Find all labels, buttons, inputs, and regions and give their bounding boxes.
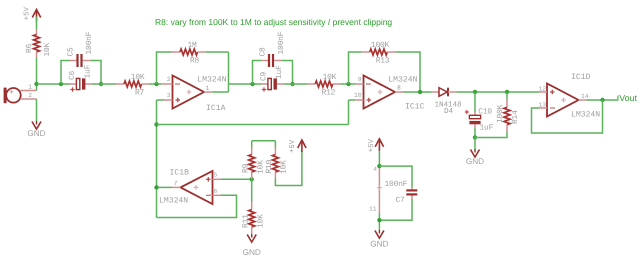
node IC1B output xyxy=(154,185,158,189)
op-amp IC1D xyxy=(547,84,579,117)
svg-text:10K: 10K xyxy=(131,73,145,82)
resistor R6 xyxy=(36,29,38,35)
pin 8 output xyxy=(395,91,403,93)
svg-text:D4: D4 xyxy=(444,107,454,116)
svg-text:2: 2 xyxy=(28,92,32,99)
wire R10 to +5V xyxy=(275,151,302,186)
node vref distribution xyxy=(154,122,158,126)
ground xyxy=(247,235,256,243)
svg-text:+5V: +5V xyxy=(24,7,32,21)
node C5 left xyxy=(59,82,63,86)
wire C5 branch right xyxy=(91,61,102,85)
svg-text:1M: 1M xyxy=(187,41,197,50)
node vref divider xyxy=(250,177,254,181)
svg-text:3: 3 xyxy=(167,92,171,99)
svg-text:R9: R9 xyxy=(242,163,251,173)
svg-text:IC1C: IC1C xyxy=(405,103,425,112)
wire xyxy=(36,99,38,122)
svg-text:1uF: 1uF xyxy=(480,124,494,133)
wire xyxy=(403,91,431,93)
svg-text:1uF: 1uF xyxy=(84,64,93,78)
svg-text:C9: C9 xyxy=(260,71,269,81)
svg-text:Vout: Vout xyxy=(619,93,637,103)
capacitor C6 (polarized) xyxy=(70,83,77,85)
svg-text:10: 10 xyxy=(354,92,362,99)
wire C8 branch right xyxy=(282,61,293,85)
svg-text:GND: GND xyxy=(243,248,261,257)
node C10/R14 gnd join xyxy=(473,135,477,139)
svg-text:100K: 100K xyxy=(371,41,390,50)
svg-text:13: 13 xyxy=(538,101,546,108)
wire xyxy=(150,83,162,85)
svg-text:LM324N: LM324N xyxy=(388,76,417,85)
svg-text:100nF: 100nF xyxy=(85,31,94,54)
resistor R9 xyxy=(251,141,253,148)
svg-text:12: 12 xyxy=(538,86,546,93)
diode D4 1N4148 xyxy=(431,91,439,93)
wire vref rail xyxy=(157,124,349,126)
pin 2 xyxy=(20,98,36,100)
svg-text:1uF: 1uF xyxy=(275,65,284,79)
wire to IC1C pin10 xyxy=(348,100,350,125)
resistor R14 xyxy=(506,92,508,100)
svg-text:7: 7 xyxy=(174,180,178,187)
wire output riser xyxy=(228,52,230,92)
svg-text:100nF: 100nF xyxy=(385,180,408,189)
svg-text:R12: R12 xyxy=(322,89,336,98)
wire xyxy=(457,91,540,93)
pin 14 output xyxy=(579,99,587,101)
pin 6 xyxy=(213,194,222,196)
svg-text:GND: GND xyxy=(27,129,45,138)
wire R13 feedback loop xyxy=(349,52,362,84)
wire R8 to output riser xyxy=(206,51,229,53)
svg-text:C8: C8 xyxy=(259,47,268,57)
svg-text:R11: R11 xyxy=(242,214,251,228)
wire divider top xyxy=(252,140,276,142)
node C8 right xyxy=(290,82,294,86)
svg-text:R14: R14 xyxy=(511,110,520,124)
svg-text:LM324N: LM324N xyxy=(159,197,188,206)
wire C10 branch xyxy=(474,92,476,112)
resistor R13 xyxy=(362,51,370,53)
IC1 power pins 4/11 xyxy=(378,166,380,213)
svg-text:R8: vary from 100K to 1M to ad: R8: vary from 100K to 1M to adjust sensi… xyxy=(155,17,392,27)
power +5V (mic bias) xyxy=(32,10,40,18)
wire xyxy=(475,132,507,138)
svg-text:6: 6 xyxy=(214,188,218,195)
node R13 output junction xyxy=(418,90,422,94)
pin 13 xyxy=(539,107,547,109)
capacitor C5 xyxy=(70,60,76,62)
wire xyxy=(341,83,356,85)
ground xyxy=(32,122,41,130)
net label Vout xyxy=(617,96,619,101)
svg-text:11: 11 xyxy=(369,206,377,213)
node detector xyxy=(473,90,477,94)
wire rail stage2 xyxy=(229,83,262,85)
pin 1 output xyxy=(204,91,212,93)
wire vref riser xyxy=(156,100,158,218)
power +5V supply pins xyxy=(375,139,383,147)
svg-text:C6: C6 xyxy=(68,70,77,80)
power +5V divider xyxy=(298,140,306,148)
wire xyxy=(36,58,38,84)
svg-text:GND: GND xyxy=(370,239,388,248)
pin 10 xyxy=(355,99,364,101)
pin 2 xyxy=(162,83,173,85)
wire feedback loop IC1D xyxy=(532,100,603,133)
op-amp IC1B (mirrored) xyxy=(181,171,213,204)
node R8 tap xyxy=(154,82,158,86)
node power bottom xyxy=(377,218,381,222)
svg-text:100nF: 100nF xyxy=(277,31,286,54)
svg-text:C5: C5 xyxy=(67,47,76,57)
node R13 tap xyxy=(346,82,350,86)
node C8 left xyxy=(250,82,254,86)
svg-text:IC1D: IC1D xyxy=(571,73,591,82)
ground xyxy=(375,231,384,239)
svg-text:C10: C10 xyxy=(478,108,492,117)
pin 3 xyxy=(164,99,173,101)
wire xyxy=(379,199,412,220)
wire xyxy=(378,213,380,231)
svg-text:IC1A: IC1A xyxy=(206,104,226,113)
wire output xyxy=(587,99,619,101)
svg-text:2: 2 xyxy=(167,76,171,83)
wire R13 to output xyxy=(396,52,421,92)
wire main rail xyxy=(37,83,71,85)
resistor R11 xyxy=(251,179,253,202)
wire xyxy=(212,91,229,93)
wire xyxy=(474,128,476,138)
svg-text:5: 5 xyxy=(214,172,218,179)
pin 9 xyxy=(355,83,364,85)
microphone MIC1 xyxy=(4,88,7,104)
svg-text:10K: 10K xyxy=(323,73,337,82)
pin 1 xyxy=(20,90,36,92)
svg-text:LM324N: LM324N xyxy=(197,76,226,85)
node C5 right xyxy=(99,82,103,86)
ground xyxy=(471,150,480,158)
svg-text:R13: R13 xyxy=(376,57,390,66)
wire xyxy=(349,99,356,101)
svg-text:R10: R10 xyxy=(265,159,274,173)
wire R8 feedback loop xyxy=(157,52,172,84)
svg-text:100K: 100K xyxy=(496,104,505,123)
svg-text:R6: R6 xyxy=(25,43,34,53)
wire xyxy=(474,138,476,150)
svg-text:+5V: +5V xyxy=(289,139,297,153)
svg-text:10K: 10K xyxy=(43,42,52,56)
node feedback tap xyxy=(600,98,604,102)
svg-text:C7: C7 xyxy=(396,196,406,205)
svg-text:R7: R7 xyxy=(135,89,145,98)
pin 12 xyxy=(539,91,547,93)
resistor R7 xyxy=(116,83,124,85)
node mic junction xyxy=(34,82,38,86)
wire xyxy=(36,17,38,30)
wire xyxy=(36,84,38,91)
svg-text:+5V: +5V xyxy=(368,139,376,153)
wire C8 branch left xyxy=(253,61,262,85)
svg-text:LM324N: LM324N xyxy=(571,111,600,120)
wire C5 branch left xyxy=(61,61,70,85)
wire xyxy=(92,83,116,85)
op-amp IC1A xyxy=(173,76,205,109)
capacitor C8 xyxy=(262,60,268,62)
capacitor C10 (polarized, vertical) xyxy=(474,112,476,116)
resistor R10 xyxy=(274,141,276,148)
svg-text:R8: R8 xyxy=(190,57,200,66)
svg-text:10K: 10K xyxy=(257,214,266,228)
wire xyxy=(378,151,380,167)
capacitor C9 (polarized) xyxy=(262,83,269,85)
wire to C7 xyxy=(379,166,412,187)
svg-text:1: 1 xyxy=(206,85,210,92)
resistor R12 xyxy=(308,83,316,85)
op-amp IC1C xyxy=(364,76,396,109)
wire xyxy=(157,99,165,101)
svg-text:1: 1 xyxy=(28,84,32,91)
pin 7 output xyxy=(172,186,181,188)
svg-text:IC1B: IC1B xyxy=(170,168,190,177)
capacitor C7 (vertical) xyxy=(411,187,413,191)
svg-text:GND: GND xyxy=(466,157,484,166)
pin 5 xyxy=(213,178,222,180)
svg-text:14: 14 xyxy=(581,93,589,100)
node power top xyxy=(377,164,381,168)
resistor R8 xyxy=(172,51,181,53)
wire xyxy=(284,83,308,85)
wire xyxy=(157,186,173,188)
svg-text:8: 8 xyxy=(397,85,401,92)
svg-text:9: 9 xyxy=(358,76,362,83)
wire pin5 net xyxy=(221,178,252,180)
wire IC1B feedback loop xyxy=(157,195,237,217)
svg-text:10K: 10K xyxy=(280,160,289,174)
node R14 tap xyxy=(505,90,509,94)
svg-text:4: 4 xyxy=(373,166,377,173)
